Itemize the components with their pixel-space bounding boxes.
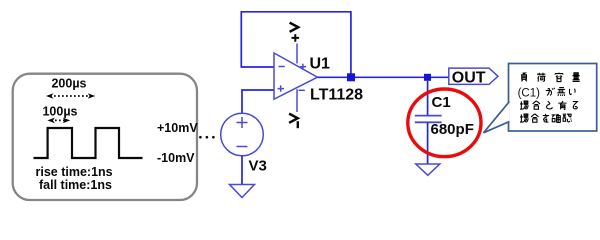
callout text line2: (C1)が無い bbox=[518, 87, 576, 99]
callout box bbox=[509, 64, 597, 132]
callout text line1: 負荷容量 bbox=[522, 73, 580, 82]
svg-text:680pF: 680pF bbox=[431, 121, 474, 138]
svg-text:200µs: 200µs bbox=[51, 77, 86, 91]
label V+ (rotated, top supply) bbox=[290, 23, 300, 42]
label V- (rotated, bottom supply) bbox=[289, 114, 299, 129]
svg-text:U1: U1 bbox=[310, 55, 331, 72]
svg-text:(C1): (C1) bbox=[518, 87, 541, 99]
svg-text:fall time:1ns: fall time:1ns bbox=[39, 178, 112, 192]
200us dotted arrow bbox=[46, 93, 95, 99]
svg-text:100µs: 100µs bbox=[42, 105, 77, 119]
wire V3 top to op-amp plus input bbox=[242, 90, 274, 113]
wire V3 bottom to ground bbox=[241, 156, 243, 185]
ground under capacitor bbox=[416, 164, 440, 175]
wire junction to capacitor bbox=[427, 81, 429, 115]
callout text line3: 場合と有る bbox=[520, 101, 577, 110]
svg-text:+10mV: +10mV bbox=[157, 121, 198, 135]
svg-text:LT1128: LT1128 bbox=[310, 86, 363, 103]
ellipsis dots bbox=[199, 136, 215, 139]
feedback wire loop bbox=[241, 12, 351, 74]
svg-text:OUT: OUT bbox=[452, 69, 486, 86]
flag OUT bbox=[449, 68, 498, 86]
op-amp U1 bbox=[274, 44, 318, 113]
100us dotted arrow bbox=[47, 118, 70, 124]
svg-text:-10mV: -10mV bbox=[157, 151, 195, 165]
svg-text:C1: C1 bbox=[432, 94, 451, 111]
red highlight circle around C1 bbox=[408, 89, 481, 157]
waveform description box bbox=[13, 74, 197, 200]
node junction at capacitor bbox=[424, 74, 431, 81]
pulse waveform bbox=[34, 128, 143, 158]
callout pointer wedge bbox=[484, 102, 510, 133]
callout text line4: 場合を確認 bbox=[520, 114, 572, 123]
node junction at feedback bbox=[347, 73, 355, 81]
voltage source V3 bbox=[221, 113, 264, 156]
wire capacitor to ground bbox=[427, 122, 429, 164]
svg-text:V3: V3 bbox=[249, 157, 267, 174]
capacitor C1 bbox=[415, 116, 442, 123]
output wire bbox=[318, 76, 449, 78]
ground under V3 bbox=[230, 185, 255, 198]
